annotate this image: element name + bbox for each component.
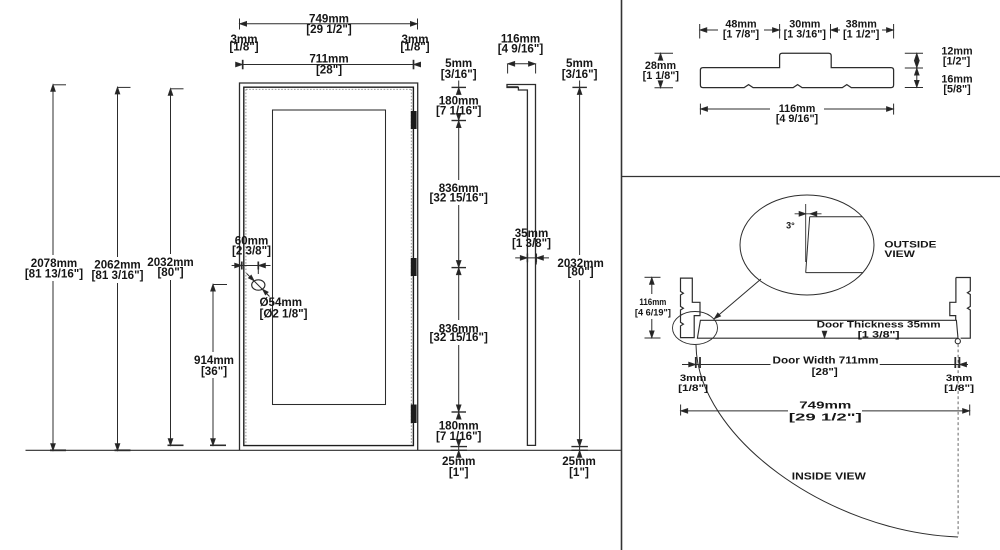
svg-text:[36"]: [36"] (201, 365, 227, 378)
svg-text:3°: 3° (786, 221, 795, 231)
svg-text:[1/8"]: [1/8"] (229, 41, 258, 54)
svg-text:[1 3/8"]: [1 3/8"] (858, 329, 900, 339)
svg-text:[3/16"]: [3/16"] (562, 68, 598, 81)
svg-text:[1/8"]: [1/8"] (400, 41, 429, 54)
svg-text:[29 1/2"]: [29 1/2"] (789, 412, 862, 424)
svg-text:[1 7/8"]: [1 7/8"] (723, 29, 759, 41)
svg-text:Door Width 711mm: Door Width 711mm (773, 355, 879, 367)
svg-text:[28"]: [28"] (812, 366, 838, 378)
svg-text:[1/8"]: [1/8"] (944, 383, 974, 393)
svg-text:749mm: 749mm (799, 399, 851, 411)
svg-text:[5/8"]: [5/8"] (943, 83, 970, 95)
svg-text:[4 6/19"]: [4 6/19"] (635, 308, 671, 318)
svg-text:[28"]: [28"] (316, 64, 342, 77)
svg-text:[1 1/8"]: [1 1/8"] (643, 70, 679, 82)
svg-text:[81 3/16"]: [81 3/16"] (92, 269, 144, 282)
svg-text:VIEW: VIEW (884, 249, 915, 259)
svg-text:INSIDE VIEW: INSIDE VIEW (792, 471, 867, 482)
svg-text:[1/2"]: [1/2"] (943, 55, 970, 67)
svg-text:[1"]: [1"] (569, 466, 589, 479)
svg-text:[80"]: [80"] (568, 265, 594, 278)
svg-text:[2 3/8"]: [2 3/8"] (232, 245, 271, 258)
svg-text:[4 9/16"]: [4 9/16"] (498, 43, 544, 56)
svg-text:[32 15/16"]: [32 15/16"] (430, 331, 488, 344)
svg-text:[7 1/16"]: [7 1/16"] (436, 105, 482, 118)
svg-text:[1 3/16"]: [1 3/16"] (784, 29, 826, 41)
svg-text:[4 9/16"]: [4 9/16"] (776, 113, 818, 125)
svg-text:[29 1/2"]: [29 1/2"] (306, 23, 352, 36)
svg-text:OUTSIDE: OUTSIDE (884, 240, 936, 250)
svg-text:[1"]: [1"] (449, 466, 469, 479)
svg-text:Door Thickness 35mm: Door Thickness 35mm (817, 319, 941, 329)
svg-text:116mm: 116mm (639, 297, 666, 307)
svg-text:[1 1/2"]: [1 1/2"] (843, 29, 879, 41)
svg-text:[81 13/16"]: [81 13/16"] (25, 268, 83, 281)
svg-text:[3/16"]: [3/16"] (441, 68, 477, 81)
svg-text:[Ø2 1/8"]: [Ø2 1/8"] (260, 308, 308, 321)
svg-text:[80"]: [80"] (157, 266, 183, 279)
svg-text:[1 3/8"]: [1 3/8"] (512, 237, 551, 250)
svg-text:3mm: 3mm (680, 373, 707, 383)
svg-text:[1/8"]: [1/8"] (678, 383, 708, 393)
svg-text:[32 15/16"]: [32 15/16"] (430, 192, 488, 205)
svg-text:[7 1/16"]: [7 1/16"] (436, 430, 482, 443)
svg-text:3mm: 3mm (946, 373, 973, 383)
